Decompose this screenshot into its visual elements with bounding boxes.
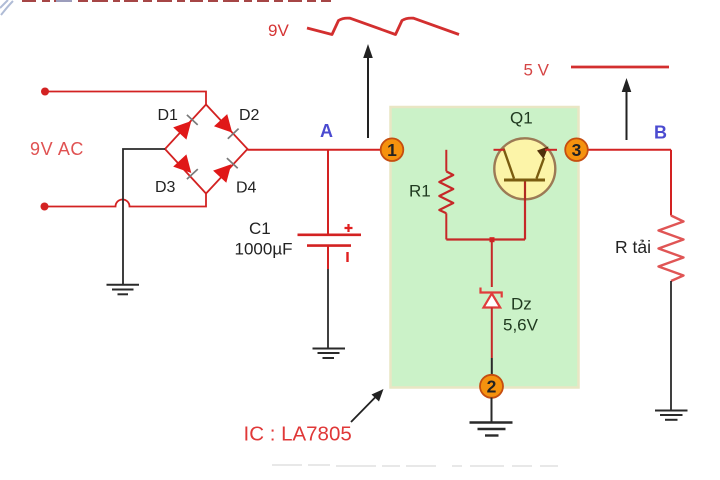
- arrow to IC block: [351, 389, 384, 422]
- wire: top AC input: [45, 92, 206, 105]
- diode D4: [213, 158, 238, 183]
- arrow up to 5V line: [622, 78, 632, 140]
- wire: main DC bus from bridge to node B corner: [248, 149, 672, 151]
- node junction (zener tap): [490, 237, 495, 242]
- wire: R1 bottom to base junction: [446, 238, 525, 240]
- ground (bridge): [107, 285, 140, 295]
- wire: C1 branch: [327, 150, 329, 234]
- wire: zener to pin 2: [491, 308, 493, 359]
- svg-text:B: B: [654, 123, 667, 143]
- resistor R tai: [659, 216, 684, 282]
- svg-text:9V AC: 9V AC: [30, 139, 84, 159]
- svg-text:Dz: Dz: [511, 295, 532, 314]
- pin 1: [381, 138, 404, 161]
- svg-text:C1: C1: [249, 219, 271, 238]
- wire: C1 to ground: [327, 246, 329, 269]
- capacitor C1: [298, 235, 362, 246]
- pin 2: [480, 375, 503, 398]
- wire: zener branch down: [491, 240, 493, 288]
- zener diode Dz: [481, 288, 502, 308]
- wire: B corner down to R tai: [670, 150, 672, 216]
- wire: R tai to ground: [670, 281, 672, 410]
- svg-text:R1: R1: [409, 182, 431, 201]
- pin 3: [565, 138, 588, 161]
- svg-text:1000µF: 1000µF: [235, 240, 293, 259]
- resistor R1: [439, 150, 453, 240]
- svg-text:Q1: Q1: [510, 109, 533, 128]
- wire: bottom AC input with hop over ground wire: [45, 194, 207, 207]
- 9V ripple waveform: [307, 18, 459, 34]
- plus mark (C1 polarity): [345, 224, 353, 232]
- 5V level line: [571, 66, 669, 69]
- svg-text:IC : LA7805: IC : LA7805: [244, 423, 352, 446]
- ground (C1): [313, 349, 346, 359]
- input terminal bottom: [41, 203, 49, 211]
- arrow up to 9V waveform: [363, 44, 373, 138]
- ground (pin 2): [470, 423, 513, 436]
- transistor Q1: [494, 138, 558, 200]
- svg-text:5,6V: 5,6V: [503, 316, 539, 335]
- svg-text:5 V: 5 V: [524, 61, 550, 80]
- wire: bridge negative to ground (black): [123, 149, 165, 284]
- diode D2: [214, 114, 239, 139]
- current mark i: [346, 252, 348, 262]
- svg-text:R tải: R tải: [615, 237, 651, 257]
- wire: base lead up to Q1: [524, 181, 526, 240]
- cropped red text remnant at top edge: [22, 0, 331, 2]
- svg-text:D3: D3: [155, 179, 176, 196]
- diode D3: [173, 154, 198, 179]
- watermark squiggle top-left corner: [0, 0, 13, 15]
- wire: pin 2 to ground: [491, 398, 493, 423]
- bridge rectifier diamond wires: [165, 105, 248, 194]
- svg-text:A: A: [320, 121, 333, 141]
- ground (R tai): [655, 411, 688, 420]
- input terminal top: [41, 88, 49, 96]
- svg-text:D4: D4: [236, 180, 257, 197]
- svg-text:2: 2: [487, 377, 497, 397]
- faint caption remnant at bottom: [272, 465, 558, 466]
- diode D1: [173, 115, 198, 140]
- svg-text:1: 1: [387, 140, 397, 160]
- IC LA7805 block (green box): [391, 107, 579, 388]
- svg-text:D2: D2: [239, 107, 260, 124]
- svg-text:3: 3: [572, 140, 582, 160]
- svg-text:D1: D1: [158, 107, 179, 124]
- svg-text:9V: 9V: [268, 21, 289, 40]
